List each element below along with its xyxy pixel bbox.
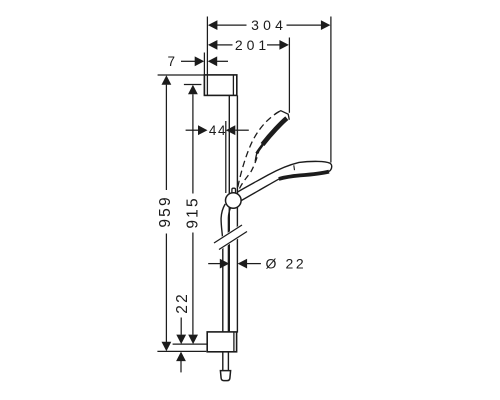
arrowhead 44 right (points left) <box>226 125 236 135</box>
extension line right end of 304 dim <box>330 17 332 163</box>
extension line rail mount top (y=84.5) <box>184 84 202 86</box>
svg-text:22: 22 <box>174 292 191 314</box>
arrowhead 201 right <box>279 40 289 50</box>
break symbol diagonal 1 <box>214 225 242 243</box>
break symbol diagonal 2 <box>219 232 247 250</box>
alternate position: head beak outline <box>275 111 290 120</box>
hand shower handle upper edge + head top edge <box>238 161 332 192</box>
extension line right end of 44 dim <box>225 121 227 193</box>
extension line bottom mount (L1 y=344.1) <box>173 343 208 345</box>
arrowhead 915 bottom <box>188 335 198 345</box>
extension line right end of 201 dim <box>288 38 290 113</box>
arrowhead 7 left (points right) <box>195 56 205 66</box>
dimension 915 vertical line <box>192 94 194 193</box>
arrowhead 304 left <box>208 20 218 30</box>
arrowhead dia22 left (points right) <box>220 259 230 269</box>
svg-text:201: 201 <box>235 37 270 53</box>
dimension 22 vertical leaders <box>180 318 182 335</box>
rail (slide bar) <box>221 95 237 370</box>
alternate position: inner dashed edge <box>240 149 260 189</box>
top bracket inner-left line <box>206 75 208 96</box>
svg-text:959: 959 <box>157 195 174 227</box>
arrowhead 7 right (points left) <box>208 56 218 66</box>
extension line top of rail (y=75) <box>158 74 206 76</box>
holder knob stub <box>232 188 236 194</box>
break symbol white band <box>213 224 249 250</box>
dimension dia22 shafts <box>208 263 220 265</box>
arrowhead 22 upper (points down) <box>176 335 186 345</box>
alternate position: spray face (thick black) <box>263 118 287 144</box>
alternate position: outer dashed edge <box>238 110 281 187</box>
svg-text:7: 7 <box>167 54 175 69</box>
svg-text:Ø 22: Ø 22 <box>266 256 307 272</box>
arrowhead 44 left (points right) <box>198 125 208 135</box>
extension line rail bottom (L2 y=351.4) <box>157 350 206 352</box>
bottom wall bracket <box>207 332 236 352</box>
arrowhead dia22 right (points left) <box>238 259 248 269</box>
svg-text:915: 915 <box>184 196 201 228</box>
arrowhead 959 bottom <box>162 342 172 352</box>
top bracket inner-right line <box>232 75 234 96</box>
dimension 7 shafts <box>181 60 195 62</box>
dimension 201 shaft <box>217 44 233 46</box>
dimension 304 shaft <box>217 24 247 26</box>
arrowhead 22 lower (points up) <box>176 352 186 362</box>
rail right edge <box>236 95 238 332</box>
bottom bracket inner-right line <box>233 332 235 352</box>
dimension 959 vertical line <box>165 85 167 190</box>
arrowhead 915 top <box>188 85 198 95</box>
extension line wall plane (left end of 304/201/7/44 dims) <box>206 17 208 96</box>
extension line wall-plate outer (left of 7 dim) <box>203 53 205 96</box>
arrowhead 304 right <box>321 20 331 30</box>
rail left edge <box>228 95 230 332</box>
dimension 44 shafts <box>186 129 199 131</box>
head/handle junction tick <box>293 165 296 170</box>
arrowhead 201 left <box>208 40 218 50</box>
hand shower spray face (thick black band) <box>279 172 329 179</box>
arrowhead 959 top <box>162 75 172 85</box>
hose right edge <box>228 208 230 371</box>
svg-text:304: 304 <box>251 17 287 33</box>
hand shower handle lower edge <box>239 179 280 202</box>
hose left edge <box>221 204 225 371</box>
hose end fitting (cap) <box>220 371 230 381</box>
svg-text:44: 44 <box>209 123 227 138</box>
top wall bracket <box>204 75 236 96</box>
holder knob <box>226 193 242 209</box>
